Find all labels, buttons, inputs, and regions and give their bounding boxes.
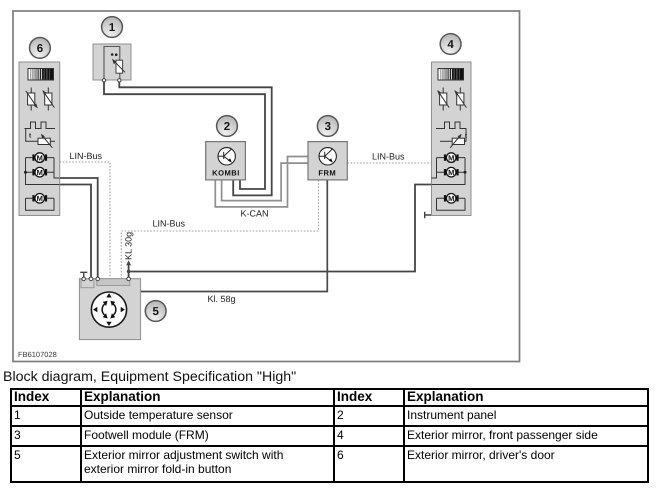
- outside temperature sensor box 1: [93, 44, 131, 82]
- wire K-CAN inner: [222, 163, 308, 201]
- svg-text:LIN-Bus: LIN-Bus: [70, 151, 103, 161]
- svg-text:LIN-Bus: LIN-Bus: [372, 152, 405, 162]
- index ball 2: [217, 116, 238, 137]
- svg-text:5: 5: [152, 306, 159, 318]
- mirror4 fold motor: [437, 194, 466, 211]
- svg-text:K-CAN: K-CAN: [241, 209, 269, 219]
- mirror4 fold-in actuator: [436, 122, 468, 148]
- svg-text:4: 4: [447, 39, 454, 51]
- svg-text:1: 1: [109, 22, 116, 34]
- svg-text:Kl. 58g: Kl. 58g: [208, 294, 236, 304]
- instrument panel KOMBI box 2: [206, 142, 246, 180]
- svg-text:KL 30g: KL 30g: [124, 232, 134, 260]
- svg-text:M: M: [37, 168, 43, 177]
- mirror4 heater resistors: [437, 88, 466, 111]
- wire temp sensor to KOMBI (outer): [119, 80, 271, 195]
- index ball 1: [102, 17, 123, 38]
- mirror adjustment switch box 5: [79, 277, 140, 340]
- wire mirror6 to switch upper: [60, 178, 98, 279]
- svg-text:M: M: [448, 153, 454, 162]
- svg-text:M: M: [37, 153, 43, 162]
- index ball 3: [317, 116, 338, 137]
- svg-text:FRM: FRM: [318, 169, 336, 178]
- junction dot KL30g: [127, 270, 131, 274]
- svg-text:3: 3: [325, 121, 331, 133]
- exterior mirror front passenger box 4: [432, 62, 472, 216]
- mirror6 fold-in actuator (square wave + thermal resistor): [25, 122, 56, 148]
- wire K-CAN outer: [215, 157, 308, 207]
- index ball 4: [440, 34, 461, 55]
- svg-text:KOMBI: KOMBI: [212, 169, 240, 178]
- mirror6 heater resistors: [26, 88, 55, 111]
- terminal 31 stub at mirror4: [425, 212, 432, 218]
- wire mirror6 to switch lower: [60, 185, 92, 279]
- LIN-Bus dotted mirror6 to switch: [60, 162, 111, 280]
- exterior mirror driver's door box 6: [19, 62, 60, 216]
- svg-text:6: 6: [37, 43, 43, 55]
- svg-text:LIN-Bus: LIN-Bus: [153, 219, 186, 229]
- wire KL30g feed: [129, 185, 432, 279]
- mirror4 glass/dimming icon: [438, 69, 464, 81]
- footwell module FRM box 3: [308, 142, 347, 180]
- svg-text:FB6107028: FB6107028: [18, 350, 57, 359]
- mirror6 glass/dimming icon: [28, 69, 54, 81]
- svg-text:M: M: [448, 194, 454, 203]
- index ball 6: [30, 38, 51, 59]
- index ball 5: [145, 301, 166, 322]
- mirror4 adjust motors: [432, 153, 467, 185]
- KL30g arrow: [126, 260, 131, 265]
- diagram frame: [13, 11, 520, 362]
- LIN-Bus dotted FRM to switch: [121, 180, 318, 280]
- svg-text:M: M: [37, 194, 43, 203]
- mirror6 adjust motors: [24, 153, 60, 185]
- svg-text:2: 2: [224, 121, 230, 133]
- svg-text:M: M: [448, 168, 454, 177]
- mirror6 fold motor: [26, 194, 55, 211]
- wire temp sensor to KOMBI (inner): [104, 80, 265, 189]
- wire KL58g: [141, 180, 328, 292]
- terminal 31 stub at switch: [80, 272, 87, 278]
- LIN-Bus dotted FRM to mirror4: [347, 162, 431, 164]
